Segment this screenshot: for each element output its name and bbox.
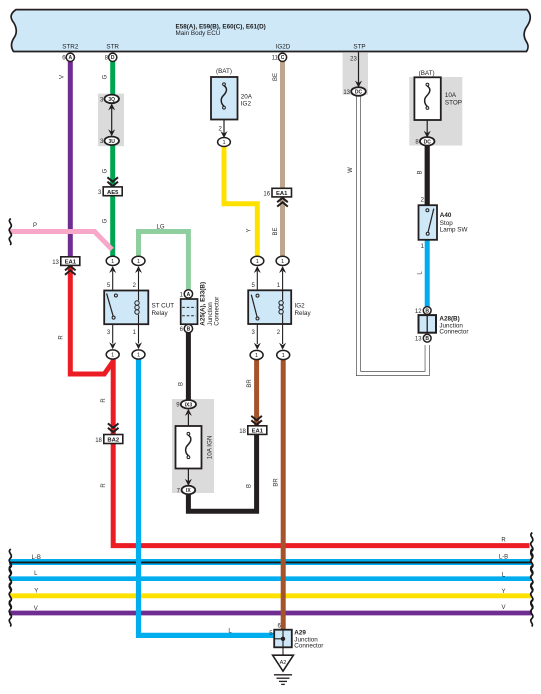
svg-text:BR: BR: [247, 379, 253, 388]
svg-text:R: R: [101, 398, 107, 403]
gray shade box on STP output (13 DC): [343, 52, 368, 94]
svg-text:BA2: BA2: [107, 438, 120, 444]
svg-text:BE: BE: [273, 227, 279, 235]
svg-text:ST CUT: ST CUT: [152, 303, 175, 310]
svg-text:1: 1: [255, 353, 258, 359]
wire Y (yellow) from 20A IG2 fuse to IG2 relay pin 5 oval: [224, 145, 257, 258]
inter-connector line with arrows (3Q to 3U): [108, 103, 115, 136]
bus wire Y (yellow) horizontal: [9, 589, 532, 596]
switch A40 Stop Lamp SW: [419, 197, 468, 250]
bus wire L (light blue) horizontal: [9, 571, 532, 579]
connector oval 1 below 20A IG2: [218, 138, 231, 147]
fuse 10A STOP: [414, 70, 462, 138]
svg-text:A2: A2: [280, 660, 287, 666]
svg-text:V: V: [34, 606, 38, 612]
connector oval 3U on STR wire: [100, 137, 119, 146]
gray shade box around 10A IGN fuse: [172, 399, 214, 493]
svg-text:1: 1: [281, 259, 284, 265]
svg-text:DC: DC: [355, 90, 363, 96]
svg-text:A29: A29: [294, 630, 306, 637]
torn-end squiggles right buses: [531, 533, 533, 560]
svg-text:20A: 20A: [241, 93, 253, 100]
svg-text:LG: LG: [156, 225, 164, 231]
svg-text:18: 18: [95, 438, 102, 444]
connector box 16 EA1 (beige): [263, 188, 291, 197]
svg-text:AE5: AE5: [107, 190, 119, 196]
svg-text:EA1: EA1: [65, 260, 77, 266]
svg-text:Y: Y: [34, 589, 38, 595]
ground symbol A2: [273, 647, 294, 684]
svg-text:W: W: [348, 167, 354, 173]
svg-text:L-B: L-B: [32, 555, 41, 561]
svg-text:G: G: [102, 168, 108, 173]
svg-text:G: G: [102, 218, 108, 223]
svg-text:STR: STR: [106, 44, 119, 51]
connector oval 8 DC below 10A STOP: [415, 137, 434, 146]
svg-text:BE: BE: [273, 73, 279, 81]
svg-text:DC: DC: [424, 139, 432, 145]
svg-text:Main Body ECU: Main Body ECU: [176, 30, 221, 37]
ECU pin 8 circle D (STR): [105, 53, 117, 61]
wire L (light blue) relay pin1 oval down and right to A29 pin 5: [139, 359, 275, 635]
chevron below 16 EA1: [277, 198, 288, 207]
svg-text:1: 1: [111, 353, 114, 359]
wire B (black) from 7 IX fuse bottom around up to 18 EA1: [188, 434, 256, 511]
svg-text:IG2: IG2: [295, 303, 306, 310]
bus wire V (violet) horizontal: [9, 605, 532, 613]
svg-text:B: B: [425, 336, 429, 342]
wire BE (beige) IG2D pin 11C down to IG2 relay pin 1 oval: [273, 61, 282, 258]
svg-text:11: 11: [272, 56, 279, 62]
svg-text:A: A: [68, 55, 72, 61]
fuse 20A IG2: [211, 68, 253, 138]
relay ST CUT box: [104, 291, 174, 325]
STP pin 23 drop line and arrow: [350, 52, 362, 88]
ECU pin 6 circle A (STR2): [62, 53, 74, 61]
svg-text:STOP: STOP: [445, 100, 462, 107]
wire B (black) junction B down to 9 IX3 fuse: [179, 332, 189, 400]
svg-text:Relay: Relay: [152, 310, 169, 317]
bus wire L-B (blue-black) horizontal: [9, 554, 532, 562]
connector oval 3Q on STR wire: [100, 95, 119, 104]
relay IG2 box: [248, 290, 311, 324]
svg-text:B: B: [425, 309, 429, 315]
svg-text:Lamp SW: Lamp SW: [440, 227, 468, 234]
svg-text:3Q: 3Q: [108, 97, 115, 103]
svg-text:(BAT): (BAT): [216, 68, 232, 75]
torn-end squiggles left buses: [9, 549, 11, 576]
svg-text:Connector: Connector: [214, 297, 221, 326]
svg-text:Relay: Relay: [295, 310, 312, 317]
wire BR (brown) IG2 relay pin3 oval to 18 EA1: [247, 359, 257, 426]
svg-text:1: 1: [282, 353, 285, 359]
relay IG2 terminal ovals top: [251, 256, 289, 290]
junction connector A29: [269, 624, 323, 650]
connector oval 7 IX below 10A IGN: [177, 486, 196, 495]
svg-text:Y: Y: [501, 589, 505, 595]
svg-text:A25(A), E33(B): A25(A), E33(B): [200, 282, 207, 326]
svg-text:R: R: [501, 537, 506, 543]
svg-text:A40: A40: [440, 212, 452, 219]
svg-text:1: 1: [111, 259, 114, 265]
chevron into 18 BA2 (red): [108, 423, 119, 432]
svg-text:IX3: IX3: [185, 402, 193, 408]
fuse 10A IGN: [176, 400, 214, 486]
connector box 13 EA1 (violet to red): [52, 257, 80, 266]
junction connector A28(B): [415, 307, 469, 343]
torn-end squiggle pink: [9, 219, 11, 246]
wire P (pink) from left torn end merging into green: [9, 223, 112, 250]
svg-text:IG2D: IG2D: [276, 44, 291, 51]
svg-text:BR: BR: [273, 478, 279, 487]
svg-text:A: A: [187, 292, 191, 298]
svg-text:EA1: EA1: [252, 429, 264, 435]
svg-text:V: V: [501, 605, 505, 611]
svg-text:EA1: EA1: [276, 191, 288, 197]
svg-text:(BAT): (BAT): [419, 70, 435, 77]
chevron into 3 AE5: [107, 177, 118, 186]
wire L (light blue) A40 pin 1 to A28 pin 12: [418, 240, 428, 308]
ECU pin 11 circle C (IG2D): [272, 53, 287, 61]
svg-text:13: 13: [343, 90, 350, 96]
svg-text:10A IGN: 10A IGN: [206, 435, 213, 459]
svg-text:1: 1: [137, 259, 140, 265]
svg-text:A28(B): A28(B): [439, 315, 459, 322]
wire B (black) 10A STOP fuse to A40 pin 2: [418, 145, 428, 205]
chevron below 13 EA1: [65, 266, 76, 275]
svg-text:V: V: [60, 75, 66, 79]
ECU banner E58(A), E59(B), E60(C), E61(D) Main Body ECU: [11, 10, 530, 52]
svg-text:P: P: [33, 223, 37, 229]
svg-text:Connector: Connector: [439, 328, 468, 335]
connector oval 13 DC (STP): [343, 87, 365, 96]
svg-text:B: B: [179, 382, 185, 386]
connector box 18 BA2 (red): [95, 435, 123, 444]
svg-text:STP: STP: [353, 44, 365, 51]
relay IG2 terminal ovals bottom: [250, 324, 290, 360]
wire STR2 V (violet) from pin 6A to 13 EA1: [60, 61, 71, 257]
svg-text:23: 23: [350, 57, 357, 63]
svg-text:G: G: [102, 74, 108, 79]
gray shade box around 10A STOP fuse: [409, 77, 462, 146]
svg-text:R: R: [58, 335, 64, 340]
bus wire R (red) horizontal: [113, 359, 529, 546]
svg-text:STR2: STR2: [62, 44, 79, 51]
svg-text:13: 13: [52, 260, 59, 266]
wire W (white w/ outline) from 13 DC down around to A28 pin 13: [348, 96, 427, 374]
svg-text:13: 13: [415, 337, 422, 343]
chevron into 18 EA1 (brown): [251, 416, 262, 425]
wire LG (light green) relay pin2 oval up and over to junction A: [139, 225, 189, 291]
svg-text:D: D: [111, 55, 115, 61]
svg-text:IG2: IG2: [241, 100, 252, 107]
connector box 18 EA1 (brown to black): [239, 426, 267, 435]
svg-text:R: R: [101, 483, 107, 488]
svg-text:L-B: L-B: [499, 554, 508, 560]
svg-text:1: 1: [137, 353, 140, 359]
svg-text:16: 16: [263, 191, 270, 197]
svg-text:1: 1: [256, 259, 259, 265]
svg-text:B: B: [247, 484, 253, 488]
junction connector A25(A), E33(B): [180, 282, 221, 333]
svg-text:3U: 3U: [108, 139, 115, 145]
relay ST CUT terminal ovals top: [106, 256, 145, 290]
connector box 3 AE5: [98, 187, 122, 196]
relay ST CUT terminal ovals bottom: [106, 324, 145, 359]
svg-text:18: 18: [239, 429, 246, 435]
svg-text:B: B: [187, 327, 191, 333]
svg-text:Connector: Connector: [294, 643, 323, 650]
gray shade box on STR wire (3Q/3U connectors): [98, 94, 124, 147]
svg-text:1: 1: [222, 140, 225, 146]
wire R (red) from 13 EA1 down and over to main red drop: [58, 266, 113, 488]
svg-text:B: B: [418, 170, 424, 174]
wire BR (brown) IG2 relay pin2 oval down to A29 pin 6: [273, 359, 283, 630]
svg-text:IX: IX: [186, 488, 191, 494]
svg-text:C: C: [281, 55, 285, 61]
svg-text:10A: 10A: [445, 92, 457, 99]
svg-text:Y: Y: [247, 228, 253, 232]
wire STR G (green) from pin 8D down to relay pin 5 oval: [102, 61, 112, 257]
